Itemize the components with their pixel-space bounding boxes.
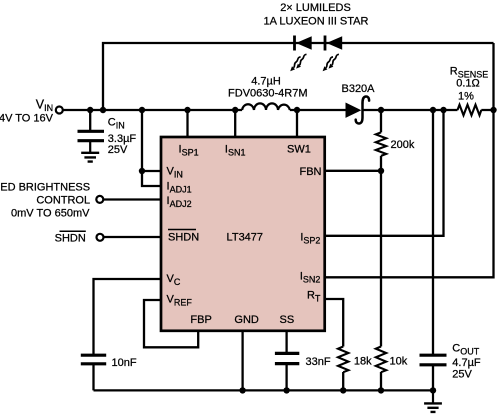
wire: CIN branch	[89, 110, 91, 131]
svg-text:SS: SS	[280, 314, 295, 326]
svg-text:FBN: FBN	[300, 166, 322, 178]
node: FBN junction	[378, 168, 384, 174]
svg-text:10nF: 10nF	[112, 357, 137, 369]
node: VOUT / 200k tap	[378, 107, 384, 113]
wire: ISP1 stub	[186, 110, 188, 137]
resistor R1 200k (vertical)	[376, 132, 386, 155]
capacitor CIN plates	[78, 131, 105, 140]
svg-text:FBP: FBP	[190, 314, 211, 326]
svg-text:CIN: CIN	[108, 117, 125, 131]
terminal: SHDN input	[97, 234, 104, 241]
svg-text:25V: 25V	[452, 369, 472, 381]
wire: RT to 18k	[325, 299, 344, 390]
svg-text:4V TO 16V: 4V TO 16V	[0, 112, 54, 124]
wire: SS pin to 33nF	[285, 331, 287, 391]
wire: divider vertical (200k/10k node)	[380, 110, 382, 390]
node: SW1 tap	[294, 107, 300, 113]
node: VIN pin tap	[139, 107, 145, 113]
overline: SHDN input	[60, 230, 86, 232]
resistor RSENSE 0.1 ohm (horizontal)	[458, 105, 482, 116]
node: ISN1 tap	[232, 107, 238, 113]
svg-text:4.7µF: 4.7µF	[452, 357, 481, 369]
wire: GND pin down	[241, 331, 243, 391]
overline: SHDN pin	[168, 229, 196, 231]
LED D3 (Luxeon)	[325, 36, 342, 51]
resistor R3 10k (vertical)	[376, 347, 386, 373]
svg-text:4.7µH: 4.7µH	[251, 76, 281, 88]
capacitor COUT plates	[420, 355, 447, 365]
svg-text:SHDN: SHDN	[55, 232, 86, 244]
wire: SW1 stub	[296, 110, 298, 137]
LED D3 light emission arrows	[326, 54, 339, 68]
LED D2 (Luxeon)	[295, 36, 312, 51]
node: ISP1 tap	[184, 107, 190, 113]
terminal: VIN input	[56, 107, 63, 114]
inductor L1 4.7uH	[242, 103, 290, 110]
svg-text:200k: 200k	[391, 139, 415, 151]
ground symbol (CIN)	[81, 153, 99, 162]
svg-text:1A LUXEON III STAR: 1A LUXEON III STAR	[264, 15, 369, 27]
wire: brightness control to IADJ2	[103, 198, 160, 200]
node: VIN pin junction	[139, 168, 145, 174]
wire: COUT branch	[432, 110, 434, 390]
node: COUT tap	[430, 107, 436, 113]
capacitor C2 33nF plates	[275, 353, 299, 363]
wire: LED loop top	[103, 43, 494, 110]
wire: FBN to divider	[325, 170, 382, 172]
wire: CIN to ground	[89, 141, 91, 153]
diode D1 B320A (Schottky)	[346, 96, 369, 123]
node: ISP2 tap	[440, 107, 446, 113]
wire: VIN rail (node VIN)	[63, 109, 494, 111]
wire: ISP2 to rail	[325, 110, 444, 236]
capacitor C1 10nF plates	[81, 355, 106, 364]
wire: ISN1 stub	[234, 110, 236, 137]
wire: VIN pin / IADJ1 branch	[142, 110, 161, 186]
svg-text:18k: 18k	[354, 356, 372, 368]
svg-text:1%: 1%	[458, 91, 474, 103]
svg-text:GND: GND	[234, 314, 259, 326]
svg-text:25V: 25V	[108, 144, 128, 156]
wire: output node down to ISN2	[325, 43, 494, 277]
svg-text:LT3477: LT3477	[227, 231, 264, 243]
svg-text:CONTROL: CONTROL	[36, 194, 90, 206]
IC U1 LT3477 body	[161, 137, 325, 331]
terminal: LED brightness control	[96, 196, 103, 203]
svg-text:SW1: SW1	[287, 144, 311, 156]
svg-text:LED BRIGHTNESS: LED BRIGHTNESS	[0, 182, 90, 194]
node: RSENSE output	[490, 107, 496, 113]
wire: VREF to FBP loop	[144, 300, 198, 347]
wire: SHDN input	[104, 236, 161, 238]
svg-text:33nF: 33nF	[306, 356, 331, 368]
node: GND rail junctions	[239, 387, 245, 393]
wire: VC to 10nF	[94, 279, 161, 390]
svg-text:COUT: COUT	[452, 343, 479, 357]
svg-text:FDV0630-4R7M: FDV0630-4R7M	[228, 88, 307, 100]
LED D2 light emission arrows	[294, 54, 307, 68]
node: LED loop tap	[100, 107, 106, 113]
resistor R2 18k (vertical)	[338, 347, 348, 373]
ground symbol (COUT)	[424, 390, 442, 412]
node: CIN tap	[87, 107, 93, 113]
svg-text:2× LUMILEDS: 2× LUMILEDS	[280, 2, 351, 14]
svg-text:0.1Ω: 0.1Ω	[456, 78, 480, 90]
wire: bottom ground rail	[94, 389, 434, 391]
svg-text:VIN: VIN	[36, 98, 53, 113]
svg-text:B320A: B320A	[341, 83, 375, 95]
svg-text:10k: 10k	[390, 356, 408, 368]
svg-text:0mV TO 650mV: 0mV TO 650mV	[11, 207, 90, 219]
svg-text:3.3µF: 3.3µF	[108, 133, 137, 145]
svg-text:SHDN: SHDN	[168, 232, 199, 244]
